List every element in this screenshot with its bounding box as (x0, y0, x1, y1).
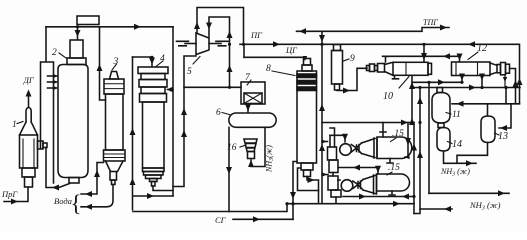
svg-text:ПГ: ПГ (250, 30, 263, 40)
vessel 6 shell (229, 113, 276, 127)
wire ЦГ header (244, 57, 305, 58)
column 8 band 3 (297, 87, 317, 91)
expander 16 stripes (244, 139, 257, 152)
wire purge downcomer (172, 27, 174, 196)
svg-text:2: 2 (52, 48, 57, 58)
wire injector 3 (48, 87, 57, 89)
wire second stage suction (209, 17, 230, 87)
vessel 1 pedestal (22, 168, 35, 177)
vessel 13 neck (487, 104, 489, 116)
wire column 9 outlet (337, 68, 367, 90)
column 2 neck (70, 40, 83, 58)
expander 16 body (248, 152, 255, 159)
wire manifold to riser stub 2 (322, 174, 328, 176)
column 3 bottom flange (104, 150, 126, 161)
wire vessel 13 drain (457, 143, 488, 163)
compressor 5 coupling left (177, 41, 189, 46)
unit 15b shell (377, 174, 410, 191)
compressor 10 coupling (367, 66, 370, 71)
svg-text:16: 16 (227, 143, 237, 153)
wire ДГ vent from vessel 1 (28, 92, 30, 107)
wire return header (452, 103, 520, 105)
junction (291, 202, 294, 205)
unit 15a cone (362, 138, 378, 158)
wire column 3 overhead (100, 27, 106, 100)
svg-text:ПрГ: ПрГ (1, 189, 18, 199)
svg-text:СГ: СГ (215, 215, 227, 225)
wire СГ header left (133, 204, 287, 212)
wire condenser 12 drain right (481, 76, 483, 88)
column 8 band 1 (297, 74, 317, 78)
wire ТПГ return (297, 28, 450, 32)
column 3 body (106, 94, 124, 150)
svg-text:ЦГ: ЦГ (285, 45, 298, 55)
unit 15a top stub (380, 123, 386, 138)
wire column 4 feed (133, 57, 153, 66)
unit 15b hourglass (353, 180, 363, 191)
svg-text:10: 10 (383, 91, 393, 102)
wire synthesis loop riser (321, 44, 323, 203)
column 4 rib 3 (141, 87, 165, 94)
wire recycle riser to ПГ (519, 44, 521, 104)
wire column 2 bottoms to vessel 1 (46, 148, 70, 188)
vessel 1 base (25, 177, 33, 187)
column 8 band 2 (297, 81, 317, 85)
column 8 cap (304, 59, 311, 66)
wire injector 2 (48, 81, 57, 83)
svg-text:{: { (71, 191, 82, 216)
vessel 14 shell (437, 128, 450, 152)
vessel 1 gas holder neck (26, 108, 31, 123)
wire NH3 liquid export (429, 192, 509, 194)
compressor 5 shaft right (209, 43, 221, 45)
wire compressor discharge (197, 8, 244, 45)
compressor 5 coupling right (216, 41, 228, 46)
wire ПГ to ТПГ link (321, 31, 323, 44)
svg-text:6: 6 (216, 108, 221, 118)
unit 15b cone (363, 175, 377, 194)
wire column 8 drain right (307, 177, 319, 204)
wire injection header (41, 27, 54, 183)
wire ПрГ feed (4, 187, 28, 202)
column 3 nozzle (110, 172, 117, 181)
wire ПГ header (240, 43, 519, 45)
svg-text:12: 12 (477, 43, 487, 54)
column 9 base (335, 84, 340, 90)
junction (418, 121, 421, 124)
unit 15a hourglass (351, 143, 361, 154)
wire chiller header (322, 122, 414, 124)
junction (320, 43, 323, 46)
svg-text:NH3 (ж): NH3 (ж) (469, 200, 501, 212)
compressor 10 pedestal (393, 75, 399, 79)
unit 15b drive (341, 180, 353, 192)
column 9 body (332, 51, 343, 85)
svg-text:11: 11 (452, 110, 461, 120)
evaporator manifold blob 3 (328, 176, 338, 190)
svg-text:13: 13 (498, 131, 508, 142)
wire chiller return leg (414, 88, 420, 214)
compressor 10 inlet cone (385, 62, 394, 75)
condenser 12 shaft (510, 69, 516, 104)
wire ammonia vapor suction (411, 75, 413, 122)
svg-text:Вода: Вода (54, 196, 72, 206)
svg-text:9: 9 (350, 54, 355, 64)
wire СГ feed stub (233, 218, 293, 220)
wire to vessel 13 (499, 104, 511, 128)
unit 15a shell (377, 137, 412, 159)
column 2 bottom tab (69, 178, 79, 184)
junction (150, 56, 153, 59)
wire injector 1 (48, 75, 57, 77)
wire column 4 bottoms (153, 186, 173, 191)
wire chiller 15a feed (330, 135, 345, 142)
junction (418, 86, 421, 89)
wire manifold link (333, 173, 336, 191)
svg-text:ДГ: ДГ (23, 75, 35, 85)
wire column 8 drain left (293, 162, 297, 220)
junction (412, 195, 415, 198)
svg-text:5: 5 (187, 67, 192, 77)
separator 11 shell (432, 93, 450, 124)
wire manifold down (335, 197, 337, 204)
vessel 1 inner wall (23, 139, 34, 168)
column 2 body (58, 65, 88, 178)
column 4 rib 2 (139, 80, 167, 88)
junction (228, 86, 231, 89)
wire recycle crossover (133, 195, 173, 197)
unit 15b bottom stub (389, 191, 395, 195)
evaporator manifold channel (330, 128, 335, 147)
wire manifold to riser stub 1 (322, 141, 328, 143)
unit 15a bottom stub (387, 159, 393, 164)
column 8 boot (301, 163, 313, 170)
svg-text:NH3 (ж): NH3 (ж) (440, 167, 470, 178)
column 4 top plate (138, 67, 168, 74)
condenser 12 rings (497, 65, 501, 73)
svg-text:.15: .15 (388, 163, 400, 173)
column 2 flange (67, 58, 86, 65)
wire NH3 refrigerant makeup (420, 208, 452, 210)
junction (242, 43, 245, 46)
vessel 13 shell (481, 116, 495, 143)
column 4 bell stripes (143, 168, 165, 172)
evaporator manifold blob 1 (328, 147, 337, 160)
wire chiller 15a inlet (405, 123, 408, 158)
junction (504, 86, 507, 89)
junction (460, 81, 463, 84)
wire fresh gas riser (132, 57, 134, 210)
compressor 10 body (393, 62, 428, 75)
column 3 cap (110, 72, 119, 80)
column 9 cap (334, 45, 341, 51)
wire liquid drop leg (428, 82, 430, 193)
junction (228, 43, 231, 46)
vessel 1 body (20, 135, 38, 168)
wire top box to column 2 (77, 27, 79, 39)
unit 15a drive (340, 144, 352, 156)
wire condenser 12 ring drain (504, 75, 506, 88)
svg-text:1: 1 (12, 120, 17, 130)
column 4 body (143, 102, 165, 168)
wire ЦГ link (243, 44, 245, 57)
column 3 taper (106, 161, 124, 172)
svg-text:8: 8 (266, 64, 271, 74)
wire NH3 product from 14 (444, 151, 477, 163)
column 4 tip (150, 179, 158, 182)
svg-text:14: 14 (452, 139, 462, 150)
column 4 rib 4 (140, 94, 167, 103)
evaporator manifold blob 2 (329, 160, 338, 173)
junction (427, 81, 430, 84)
compressor 5 casing (196, 33, 209, 55)
wire chiller bottoms header (343, 196, 414, 198)
wire purge into column 4 (168, 89, 174, 91)
junction (480, 86, 483, 89)
condenser 12 cone (490, 63, 497, 75)
wire condenser 12 drain left (461, 76, 463, 83)
wire flash gas line (412, 81, 462, 83)
wire column 8 boot nozzle (298, 168, 319, 191)
separator 11 boot (438, 123, 444, 128)
evaporator manifold foot (331, 190, 341, 197)
wire separator 7 drain (247, 104, 249, 113)
column 4 rib 1 (141, 74, 165, 80)
column 8 body (297, 71, 317, 163)
svg-text:NH3(ж): NH3(ж) (265, 145, 276, 173)
wire vessel 6 to expander 16 (251, 127, 265, 166)
wire compressor suction (173, 56, 196, 187)
wire suction header (412, 87, 520, 89)
wire purge header (46, 26, 173, 28)
wire separator 7 feed (184, 86, 241, 88)
flare box (77, 16, 99, 25)
wire header drop (505, 88, 507, 104)
compressor 10 end cap (428, 63, 432, 74)
wire condenser 12 header (386, 56, 460, 61)
junction (285, 202, 288, 205)
wire vessel 6 drain (228, 127, 230, 211)
separator 11 neck (437, 88, 443, 93)
svg-text:.15: .15 (392, 129, 404, 139)
separator 7 demister (244, 93, 262, 104)
junction (76, 25, 79, 28)
condenser 12 body (452, 62, 491, 76)
wire chiller 15b ball feed (338, 179, 340, 181)
column 3 top flange (104, 79, 124, 94)
wire chiller vapor riser (413, 123, 415, 214)
wire water return upper (81, 163, 104, 195)
svg-text:ТПГ: ТПГ (423, 18, 438, 27)
vessel 1 flare (20, 122, 38, 135)
compressor 5 shaft left (185, 43, 196, 45)
wire chiller 15b top feed (338, 168, 378, 175)
junction (422, 43, 425, 46)
wire water return lower (81, 185, 113, 207)
separator 7 shell (241, 82, 265, 104)
wire СГ header right (287, 203, 414, 205)
junction (410, 86, 413, 89)
vessel 1 side nozzle (38, 141, 44, 149)
compressor 10 stub (383, 56, 389, 62)
wire ПГ into compressor 10 (423, 44, 425, 62)
